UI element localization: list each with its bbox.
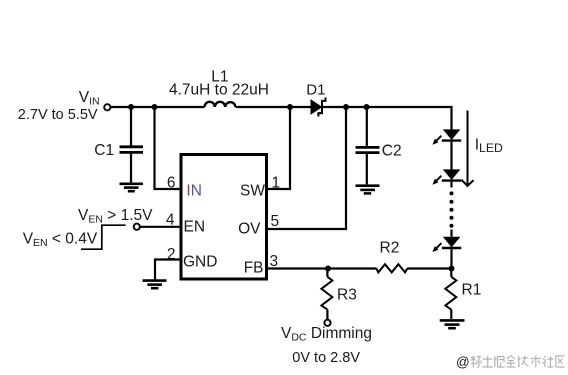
node VIN input terminal (104, 104, 110, 110)
svg-text:4.7uH to 22uH: 4.7uH to 22uH (169, 81, 269, 98)
node VDC terminal (324, 320, 330, 326)
ground C2 (356, 186, 380, 194)
svg-text:EN: EN (184, 219, 206, 236)
wire top rail VIN to inductor (110, 106, 205, 108)
resistor R1 (445, 269, 456, 319)
svg-text:6: 6 (167, 175, 176, 192)
svg-text:C2: C2 (382, 143, 402, 160)
svg-text:@: @ (456, 355, 470, 370)
wire inductor to diode (236, 106, 312, 108)
wire EN terminal to pin 4 (140, 226, 180, 228)
svg-text:OV: OV (238, 221, 261, 238)
capacitor C1 (120, 107, 144, 183)
svg-text:R1: R1 (462, 282, 482, 299)
wire EN step waveform (81, 225, 126, 249)
LED D2 emission arrow (432, 136, 441, 145)
ground C1 (120, 184, 144, 191)
wire dotted continuation of LED string (450, 191, 454, 227)
wire SW pin1 branch (268, 107, 290, 189)
svg-text:GND: GND (183, 254, 217, 271)
LED D3 emission arrow (432, 176, 441, 185)
diode D1 (311, 98, 326, 117)
ground R1 (440, 320, 465, 328)
wire pin6 branch (155, 107, 180, 189)
svg-text:5: 5 (271, 213, 280, 230)
svg-text:C1: C1 (94, 142, 114, 159)
op-amp U1 IC body (181, 155, 267, 280)
svg-text:D1: D1 (306, 82, 325, 99)
watermark @稀土掘金技术社区 (456, 355, 565, 370)
node junction R1 LED bottom (449, 266, 455, 272)
svg-text:IN: IN (186, 183, 202, 200)
wire OV pin5 branch (268, 107, 346, 229)
ground GND pin (143, 281, 167, 289)
node EN input terminal (134, 224, 140, 230)
svg-text:SW: SW (240, 183, 265, 200)
capacitor C2 (356, 107, 380, 184)
node junction C1 (128, 104, 134, 110)
LED D4 emission arrow (432, 243, 441, 252)
node junction OV branch (343, 104, 349, 110)
wire GND pin 2 branch (155, 260, 180, 280)
label ILED with current arrow (462, 111, 474, 187)
svg-text:FB: FB (244, 260, 264, 277)
inductor L1 (205, 102, 236, 107)
node junction pin6 branch (152, 104, 158, 110)
svg-text:2.7V to 5.5V: 2.7V to 5.5V (18, 107, 98, 123)
resistor R2 (376, 264, 407, 272)
LED D4 bottom (442, 230, 461, 269)
node junction R3 (325, 266, 331, 272)
node junction C2 branch (364, 104, 370, 110)
wire FB rail (268, 267, 377, 269)
node junction SW branch (287, 104, 293, 110)
svg-text:0V to 2.8V: 0V to 2.8V (292, 350, 360, 366)
resistor R3 (321, 269, 332, 320)
wire diode to LED string top corner (322, 107, 452, 130)
LED D3 (442, 169, 461, 187)
svg-text:R2: R2 (380, 240, 400, 257)
svg-text:R3: R3 (337, 287, 357, 304)
svg-text:1: 1 (272, 175, 281, 192)
wire R2 to LED bottom node (407, 267, 451, 269)
LED D2 top (442, 129, 461, 169)
